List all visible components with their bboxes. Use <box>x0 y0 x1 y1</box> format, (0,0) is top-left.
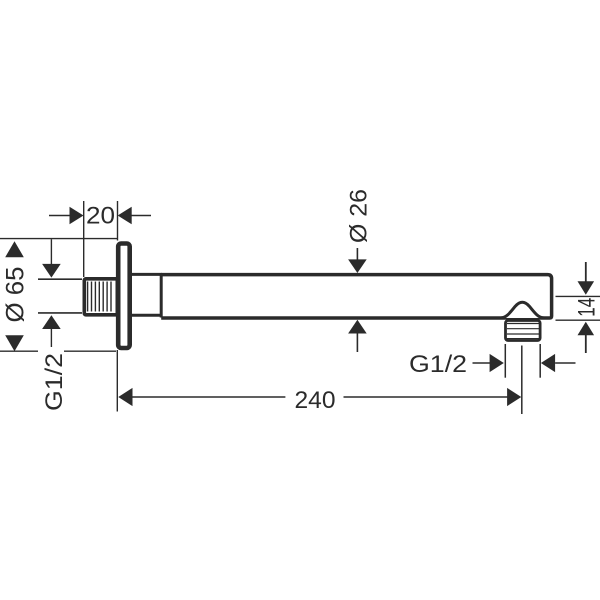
dim 20: right arrow <box>118 207 151 225</box>
dim 14: upper leader line <box>585 262 587 282</box>
dim G1/2 right: arrow pointing right <box>473 354 504 372</box>
dim G1/2 left: up arrow at nipple bottom <box>42 315 61 329</box>
dim 20: left arrow <box>49 207 84 225</box>
dim 14: lower leader line <box>585 335 587 353</box>
tube section A (behind flange, to joint) <box>130 274 162 315</box>
svg-text:20: 20 <box>86 203 115 230</box>
dim Ø65: down arrow <box>5 335 24 351</box>
dim 240: right arrow (pointing right) <box>344 388 522 406</box>
svg-text:Ø 26: Ø 26 <box>345 189 372 243</box>
dim Ø65: bottom extension line <box>0 350 38 352</box>
wall thread nipple G1/2 (left, hatched) <box>84 279 117 315</box>
dim 240: left extension line (wall face) <box>116 350 118 412</box>
dim G1/2 right: right extension line <box>539 344 541 378</box>
dim 20: left extension line (nipple left edge) <box>83 201 85 277</box>
dim G1/2 left: down arrow at nipple top <box>42 264 61 278</box>
escutcheon flange (side view) <box>118 244 130 349</box>
dim 14: top extension line <box>556 295 600 297</box>
nipple bottom edge extension line <box>38 312 82 314</box>
dim G1/2 left: upper leader line <box>50 239 52 264</box>
dim 14: up arrow <box>578 322 595 336</box>
svg-text:G1/2: G1/2 <box>409 351 467 378</box>
svg-text:240: 240 <box>295 387 336 414</box>
nipple top edge extension line <box>38 278 82 280</box>
dim Ø26: lower leader line <box>356 334 358 353</box>
tube joint line <box>160 273 163 318</box>
svg-text:14: 14 <box>574 298 600 317</box>
main tube Ø26 outline <box>161 275 551 318</box>
outlet center line <box>521 346 523 415</box>
svg-text:G1/2: G1/2 <box>41 353 68 411</box>
dim G1/2 right: arrow pointing left <box>541 354 576 372</box>
dim G1/2 right: left extension line <box>504 344 506 378</box>
dim Ø26: up arrow at tube bottom <box>348 320 367 334</box>
dim 20: right extension line (flange wall face) <box>117 201 119 241</box>
dim 14: down arrow <box>578 281 595 295</box>
dim G1/2 left: lower leader line <box>50 329 52 347</box>
dim 14: bottom extension line <box>556 319 600 321</box>
svg-text:Ø 65: Ø 65 <box>2 267 30 323</box>
dim 240: left arrow (pointing left) <box>118 388 285 406</box>
dim Ø26: upper leader line <box>356 248 358 261</box>
dim Ø26: down arrow at tube top <box>348 259 367 273</box>
outlet thread nipple G1/2 (bottom, hatched) <box>506 321 541 341</box>
dim Ø65: top extension line <box>0 238 117 240</box>
dim Ø65: up arrow <box>5 241 24 257</box>
outlet dome (ball joint cover) <box>501 302 545 318</box>
